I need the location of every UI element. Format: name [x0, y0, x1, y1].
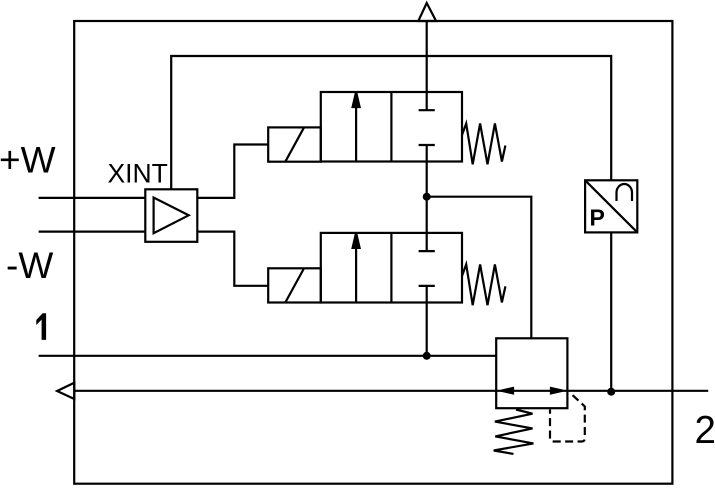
node C junction dot [607, 388, 615, 396]
node B junction dot [423, 352, 431, 360]
valve V2 spring [462, 264, 505, 305]
valve V2 divider [390, 233, 392, 303]
valve V1 body [321, 92, 462, 162]
solenoid Y2 diagonal [285, 269, 304, 303]
valve V1 spring [462, 124, 505, 165]
svg-text:P: P [590, 205, 605, 231]
svg-text:+W: +W [0, 140, 56, 181]
valve V1 flow arrow [355, 104, 357, 162]
regulator box [496, 338, 567, 408]
wire node A to valve V2 top port [426, 197, 428, 233]
svg-text:2: 2 [695, 409, 715, 452]
regulator arrow left [501, 388, 513, 393]
outer enclosure border [74, 21, 672, 484]
valve V2 flow arrow [355, 245, 357, 303]
regulator spring [494, 410, 534, 454]
svg-text:-W: -W [6, 245, 53, 286]
valve V1 blocked port top [426, 92, 428, 110]
wire sensor to node C [610, 232, 612, 391]
solenoid Y2 box [268, 268, 321, 302]
wire feedback loop top [171, 56, 611, 189]
op-amp U1 XINT box [145, 189, 197, 242]
valve V2 blocked port bottom [419, 285, 435, 287]
pressure sensor arch [617, 184, 633, 201]
wire exhaust line [426, 21, 428, 92]
wire node A to regulator top [427, 197, 532, 339]
node A junction dot [423, 193, 431, 201]
op-amp U1 triangle [154, 198, 189, 234]
port 2 arrowhead [57, 383, 74, 399]
wire port 2 line [74, 390, 708, 392]
regulator pilot line dashed [550, 392, 585, 441]
svg-text:XINT: XINT [108, 158, 168, 188]
regulator arrow right [551, 388, 563, 393]
valve V2 blocked port top [426, 233, 428, 251]
wire XINT to solenoid Y2 [197, 232, 268, 286]
exhaust arrow port 3 [418, 3, 436, 21]
pressure sensor box [585, 180, 637, 232]
solenoid Y1 diagonal [285, 128, 304, 162]
valve V1 divider [390, 92, 392, 162]
pressure sensor diagonal [585, 180, 637, 232]
wire -W input [39, 231, 146, 233]
valve V2 body [321, 233, 462, 303]
valve V1 blocked port bottom [419, 144, 435, 146]
wire XINT to solenoid Y1 [197, 145, 268, 198]
wire port 1 line [39, 355, 497, 357]
label port 1 [36, 313, 46, 340]
wire +W input [39, 197, 146, 199]
solenoid Y1 box [268, 127, 321, 161]
